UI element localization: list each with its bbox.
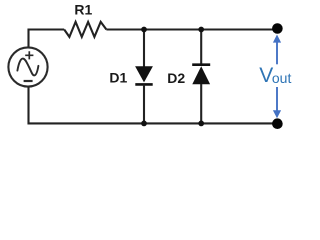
wire: source bottom lead and bottom rail [29, 87, 278, 124]
diode D2 [192, 65, 210, 85]
wire: D1 branch top [143, 30, 145, 67]
Vout arrow upper (points up to top terminal) [273, 35, 281, 65]
diode D1 [135, 66, 153, 84]
wire: D2 branch bottom [200, 84, 202, 123]
node: junction dot bottom D1 [141, 121, 147, 127]
wire: source top lead to top rail left segment [29, 30, 65, 48]
node: junction dot bottom D2 [198, 121, 204, 127]
svg-text:D1: D1 [109, 70, 127, 86]
svg-text:out: out [272, 70, 292, 86]
svg-text:R1: R1 [74, 2, 92, 18]
Vout arrow lower (points down to bottom terminal) [273, 87, 281, 118]
node: junction dot top D2 [198, 27, 204, 33]
AC source V1 [8, 47, 47, 86]
wire: D2 branch top [200, 30, 202, 65]
node: junction dot top D1 [141, 27, 147, 33]
node: output terminal bottom [272, 118, 283, 129]
svg-text:D2: D2 [167, 70, 185, 86]
wire: D1 branch bottom [143, 84, 145, 123]
resistor R1 [64, 22, 106, 37]
wire: top rail right segment [106, 28, 277, 30]
label Vout [259, 64, 291, 87]
node: output terminal top [272, 23, 283, 34]
